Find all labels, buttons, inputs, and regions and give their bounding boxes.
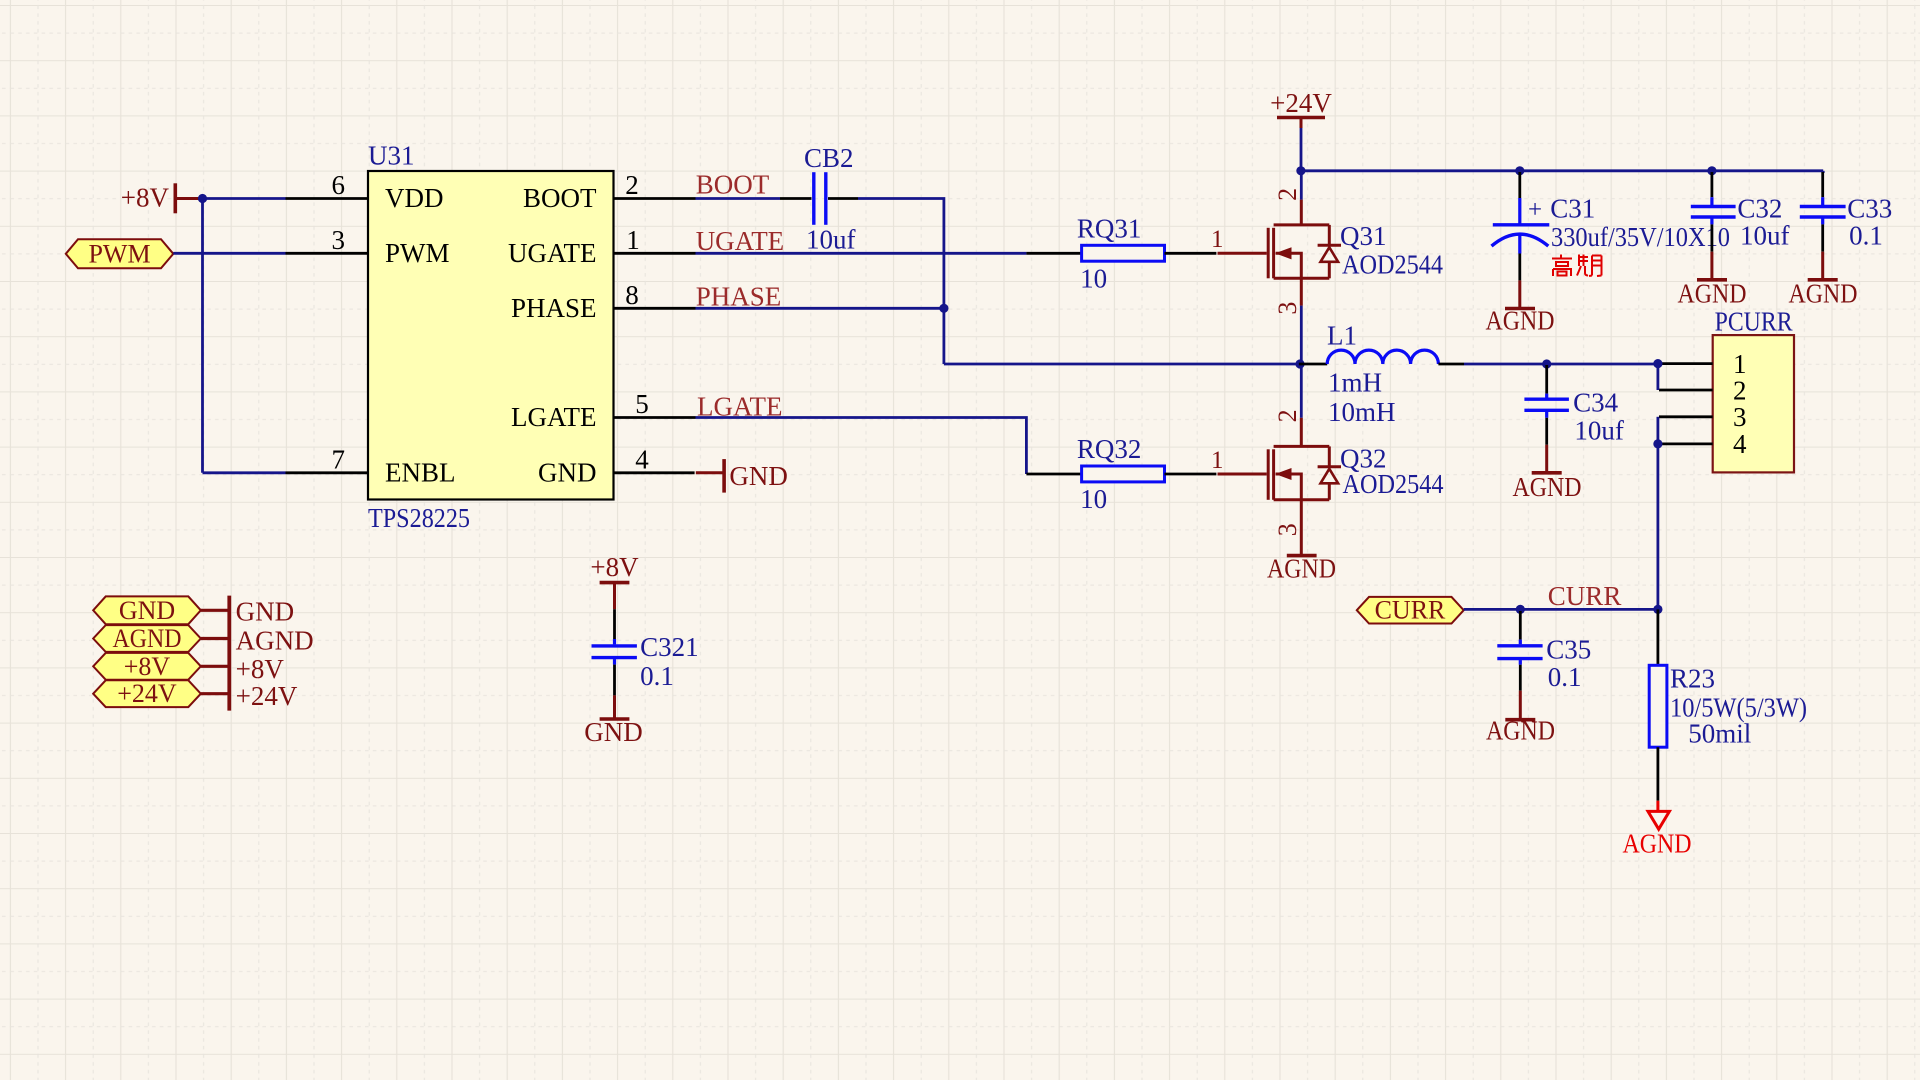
power port +8V at C321	[590, 552, 639, 609]
svg-text:CB2: CB2	[804, 143, 854, 173]
svg-text:AGND: AGND	[1678, 279, 1747, 309]
junction SW at PCURR pin1	[1653, 359, 1662, 368]
wire LGATE to RQ32	[696, 418, 1027, 475]
wire Q31 source to SW	[1300, 306, 1303, 364]
svg-text:330uf/35V/10X10: 330uf/35V/10X10	[1551, 222, 1730, 252]
value 10mH L1	[1328, 397, 1396, 427]
power port AGND at C35	[1486, 691, 1555, 746]
value 10 RQ31	[1080, 263, 1107, 293]
junction phase node	[939, 304, 948, 313]
value 0.1 C321	[640, 661, 674, 691]
wire SW to Q32 drain	[1300, 364, 1303, 418]
pin 7 ENBL	[286, 444, 456, 487]
net label CURR	[1548, 581, 1622, 611]
junction CURR at R23	[1653, 605, 1662, 614]
svg-text:+8V: +8V	[236, 654, 285, 684]
value 1mH L1	[1328, 368, 1382, 398]
svg-text:GND: GND	[119, 596, 175, 625]
svg-text:8: 8	[625, 280, 639, 310]
wire PHASE pin to node	[696, 307, 944, 310]
svg-text:CURR: CURR	[1375, 596, 1446, 625]
svg-text:PWM: PWM	[88, 240, 150, 269]
pin 1 label Q31	[1211, 226, 1224, 253]
connector PCURR designator	[1715, 307, 1793, 337]
svg-text:RQ32: RQ32	[1077, 434, 1142, 464]
designator C32	[1737, 193, 1782, 223]
svg-text:UGATE: UGATE	[696, 226, 785, 256]
pin 4 PCURR	[1659, 429, 1747, 459]
junction SW at Q31	[1295, 359, 1304, 368]
junction CURR at C35	[1516, 605, 1525, 614]
svg-text:3: 3	[1273, 302, 1302, 315]
value 0.1 C33	[1849, 221, 1883, 251]
svg-text:BOOT: BOOT	[696, 170, 770, 200]
svg-text:GND: GND	[729, 461, 788, 491]
power port +8V	[121, 183, 203, 214]
svg-text:ENBL: ENBL	[385, 457, 456, 487]
wire rail corner to C33	[1822, 171, 1825, 173]
svg-text:3: 3	[1273, 523, 1302, 536]
wire rail to Q31 drain	[1300, 171, 1303, 200]
svg-text:AGND: AGND	[1486, 716, 1555, 746]
pin 3 PWM	[286, 225, 450, 268]
power port AGND at C32	[1678, 252, 1747, 309]
port PWM	[66, 239, 174, 268]
svg-text:C31: C31	[1550, 193, 1595, 223]
svg-text:1: 1	[626, 225, 640, 255]
value 10/5W(5/3W) R23	[1670, 693, 1807, 723]
power port AGND at C31	[1486, 280, 1555, 335]
pin 5 LGATE	[511, 389, 695, 432]
svg-text:AGND: AGND	[1789, 279, 1858, 309]
designator L1	[1327, 321, 1357, 351]
svg-text:CURR: CURR	[1548, 581, 1622, 611]
port GND	[93, 596, 201, 625]
svg-text:BOOT: BOOT	[523, 183, 597, 213]
svg-text:L1: L1	[1327, 321, 1357, 351]
net label GND	[236, 596, 295, 626]
pin 3 PCURR	[1659, 402, 1747, 432]
ground AGND arrow	[1623, 801, 1692, 859]
svg-text:GND: GND	[538, 457, 597, 487]
wire UGATE to RQ31	[696, 252, 1027, 255]
pin 6 VDD	[286, 170, 444, 213]
pin 2 label Q32	[1273, 409, 1302, 422]
wire GND port	[201, 609, 230, 612]
net label BOOT	[696, 170, 770, 200]
svg-text:GND: GND	[584, 717, 643, 747]
transistor Q32	[1218, 418, 1342, 500]
net label LGATE	[697, 392, 782, 422]
port +24V	[93, 679, 201, 708]
power port AGND at C34	[1513, 445, 1582, 502]
svg-text:TPS28225: TPS28225	[368, 503, 470, 533]
svg-text:2: 2	[625, 170, 639, 200]
svg-text:LGATE: LGATE	[511, 402, 596, 432]
svg-text:AGND: AGND	[1513, 472, 1582, 502]
svg-text:50mil: 50mil	[1688, 719, 1751, 749]
svg-text:+: +	[1528, 197, 1542, 224]
svg-text:AGND: AGND	[1267, 553, 1336, 583]
designator Q31	[1340, 221, 1387, 251]
svg-text:AGND: AGND	[1623, 829, 1692, 859]
port +8V	[93, 652, 201, 681]
wire L1 to PCURR	[1464, 363, 1658, 366]
svg-text:GND: GND	[236, 596, 295, 626]
svg-text:+24V: +24V	[236, 681, 298, 711]
value 0.1 C35	[1548, 662, 1582, 692]
designator Q32	[1340, 444, 1387, 474]
net label PHASE	[696, 282, 782, 312]
value TPS28225	[368, 503, 470, 533]
svg-text:1: 1	[1211, 447, 1224, 474]
svg-text:6: 6	[332, 170, 346, 200]
svg-text:+24V: +24V	[117, 679, 177, 708]
pin 1 PCURR	[1659, 349, 1747, 379]
junction rail at C32	[1707, 166, 1716, 175]
svg-text:10: 10	[1080, 484, 1107, 514]
net label +24V	[236, 681, 298, 711]
svg-text:UGATE: UGATE	[508, 238, 597, 268]
svg-text:C35: C35	[1546, 635, 1591, 665]
wire +24V port	[201, 692, 230, 695]
wire +24V to rail	[1300, 128, 1303, 171]
svg-text:AGND: AGND	[1486, 305, 1555, 335]
svg-text:3: 3	[332, 225, 346, 255]
resistor RQ31	[1026, 245, 1216, 261]
resistor RQ32	[1026, 466, 1216, 482]
wire CB2 to phase node	[858, 199, 944, 365]
svg-text:4: 4	[635, 444, 649, 474]
pin 1 UGATE	[508, 225, 696, 268]
net label UGATE	[696, 226, 785, 256]
svg-text:10mH: 10mH	[1328, 397, 1396, 427]
wire pin4 down to CURR	[1657, 444, 1660, 610]
svg-text:2: 2	[1273, 188, 1302, 201]
svg-text:AGND: AGND	[113, 624, 182, 653]
svg-text:1: 1	[1211, 226, 1224, 253]
designator C321	[640, 632, 699, 662]
junction +8V node	[198, 194, 207, 203]
value AOD2544 Q31	[1342, 249, 1443, 279]
pin 2 label Q31	[1273, 188, 1302, 201]
transistor Q31	[1218, 200, 1342, 306]
value 330uf/35V/10X10	[1551, 222, 1730, 252]
svg-text:AOD2544: AOD2544	[1343, 469, 1444, 499]
svg-text:C32: C32	[1737, 193, 1782, 223]
pin 2 BOOT	[523, 170, 696, 213]
power port AGND at Q32 source	[1267, 500, 1336, 584]
svg-text:PWM: PWM	[385, 238, 450, 268]
junction at PCURR pin4	[1653, 439, 1662, 448]
svg-text:+8V: +8V	[121, 183, 170, 213]
svg-text:C33: C33	[1847, 193, 1892, 223]
svg-text:1mH: 1mH	[1328, 368, 1382, 398]
svg-text:0.1: 0.1	[1849, 221, 1883, 251]
svg-text:Q31: Q31	[1340, 221, 1387, 251]
capacitor C34	[1524, 365, 1569, 445]
svg-text:C34: C34	[1573, 388, 1619, 418]
svg-text:VDD: VDD	[385, 183, 444, 213]
designator C34	[1573, 388, 1619, 418]
svg-text:+8V: +8V	[590, 552, 639, 582]
wire pin3 to pin4	[1657, 417, 1660, 444]
wire BOOT to CB2	[696, 197, 781, 200]
port AGND	[93, 624, 201, 653]
inductor L1	[1299, 350, 1464, 364]
svg-text:5: 5	[635, 389, 649, 419]
value 10 RQ32	[1080, 484, 1107, 514]
wire AGND port	[201, 637, 230, 640]
svg-text:0.1: 0.1	[1548, 662, 1582, 692]
wire PWM to pin 3	[173, 252, 285, 255]
pin 3 label Q32	[1273, 523, 1302, 536]
power port +24V	[1270, 88, 1332, 128]
svg-text:3: 3	[1733, 402, 1747, 432]
port CURR	[1357, 596, 1464, 625]
svg-text:PHASE: PHASE	[511, 293, 597, 323]
designator R23	[1670, 664, 1715, 694]
svg-text:1: 1	[1733, 349, 1747, 379]
pin 3 label Q31	[1273, 302, 1302, 315]
svg-text:+24V: +24V	[1270, 88, 1332, 118]
capacitor C32	[1691, 172, 1736, 252]
wire +8V to pin 6	[203, 197, 286, 200]
wire SW rail	[944, 363, 1299, 366]
junction SW at C34	[1542, 359, 1551, 368]
svg-text:C321: C321	[640, 632, 699, 662]
power port GND at C321	[584, 695, 643, 747]
svg-text:PCURR: PCURR	[1715, 307, 1793, 337]
power port GND at pin 4	[696, 459, 788, 493]
svg-text:10uf: 10uf	[1740, 221, 1790, 251]
wire CURR net	[1464, 608, 1658, 611]
wire to pin 7 ENBL	[203, 471, 286, 474]
connector PCURR body	[1713, 335, 1794, 472]
capacitor C35	[1497, 611, 1542, 691]
value 50mil R23	[1688, 719, 1751, 749]
pin 8 PHASE	[511, 280, 696, 323]
label high-frequency (CJK)	[1552, 255, 1602, 277]
wire R23 to AGND arrow	[1657, 747, 1660, 801]
wire +8V port	[201, 665, 230, 668]
capacitor C31	[1492, 172, 1550, 280]
wire +8V down to ENBL	[201, 199, 204, 473]
junction rail at C31	[1515, 166, 1524, 175]
svg-text:7: 7	[332, 444, 346, 474]
svg-text:AGND: AGND	[236, 625, 314, 655]
value AOD2544 Q32	[1343, 469, 1444, 499]
designator U31	[368, 141, 415, 171]
designator CB2	[804, 143, 854, 173]
net label AGND	[236, 625, 314, 655]
pin 2 PCURR	[1659, 375, 1747, 405]
power bar bottom-left	[227, 596, 231, 711]
designator RQ31	[1077, 213, 1142, 243]
designator RQ32	[1077, 434, 1142, 464]
svg-text:AOD2544: AOD2544	[1342, 249, 1443, 279]
pin 1 label Q32	[1211, 447, 1224, 474]
svg-text:4: 4	[1733, 429, 1747, 459]
capacitor C321	[592, 609, 637, 695]
svg-text:10: 10	[1080, 263, 1107, 293]
svg-text:10uf: 10uf	[1574, 415, 1624, 445]
svg-text:2: 2	[1733, 375, 1747, 405]
resistor R23	[1649, 665, 1667, 747]
svg-text:10uf: 10uf	[806, 225, 856, 255]
svg-text:U31: U31	[368, 141, 415, 171]
pin 4 GND	[538, 444, 695, 487]
svg-text:0.1: 0.1	[640, 661, 674, 691]
wire pin1 to pin2	[1657, 364, 1660, 390]
net label +8V	[236, 654, 285, 684]
svg-text:R23: R23	[1670, 664, 1715, 694]
power port AGND at C33	[1789, 252, 1858, 309]
wire CURR to R23	[1657, 609, 1660, 665]
svg-text:+8V: +8V	[124, 652, 171, 681]
value 10uf CB2	[806, 225, 856, 255]
svg-text:2: 2	[1273, 409, 1302, 422]
junction +24V node	[1296, 166, 1305, 175]
value 10uf C34	[1574, 415, 1624, 445]
designator C35	[1546, 635, 1591, 665]
wire +24V rail	[1301, 169, 1823, 172]
capacitor C33	[1800, 172, 1846, 252]
value 10uf C32	[1740, 221, 1790, 251]
svg-text:RQ31: RQ31	[1077, 213, 1142, 243]
capacitor CB2	[780, 172, 858, 225]
IC U31 body	[368, 171, 614, 500]
designator C33	[1847, 193, 1892, 223]
designator C31	[1550, 193, 1595, 223]
